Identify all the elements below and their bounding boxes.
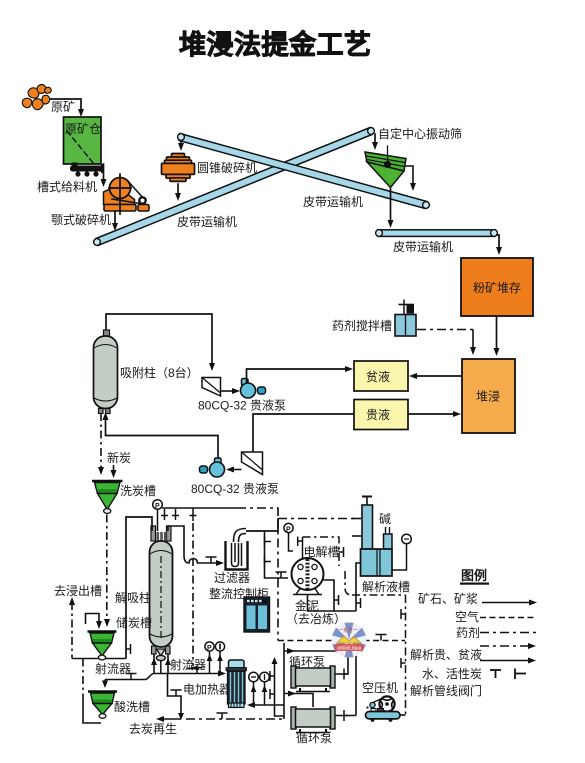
desorb tank column	[362, 497, 373, 550]
tick into tank column	[352, 535, 362, 537]
valve on x405 b	[401, 658, 406, 668]
electrolysis cell circle	[292, 558, 324, 595]
lower branch to regen	[168, 674, 182, 716]
svg-text:P: P	[155, 503, 160, 510]
dashdot line to tank column	[278, 518, 358, 520]
belt conveyor A (up-right)	[94, 128, 375, 246]
svg-text:自定中心振动筛: 自定中心振动筛	[378, 126, 462, 141]
dashed air line bottom y641	[278, 640, 405, 642]
svg-text:解析管线阀门: 解析管线阀门	[410, 683, 482, 698]
jet outlet pipes	[153, 654, 155, 674]
svg-text:图例: 图例	[461, 568, 487, 583]
pump2 80CQ-32	[200, 458, 225, 477]
dashdot vertical at x278	[277, 519, 279, 641]
electric heater 电加热器	[226, 660, 247, 708]
svg-text:射流器: 射流器	[95, 661, 131, 676]
svg-text:原矿仓: 原矿仓	[65, 122, 101, 136]
pressure gauge P on desorption column	[153, 500, 163, 531]
regen arrow left	[161, 718, 181, 720]
wire stock to heap	[496, 316, 498, 351]
valve pair on x264.5 a	[265, 537, 272, 547]
arrow cone crusher to beltA	[177, 184, 179, 196]
valve T on filter line	[206, 557, 217, 563]
svg-text:酸洗槽: 酸洗槽	[114, 699, 150, 714]
wire sump1 to pump1	[221, 390, 236, 392]
jet device under desorption column 射流器	[152, 646, 171, 661]
arrow beltA end to screen	[374, 134, 376, 145]
svg-text:堆浸法提金工艺: 堆浸法提金工艺	[179, 29, 372, 60]
svg-text:药剂: 药剂	[456, 625, 480, 640]
valve T before cell	[276, 572, 287, 578]
svg-text:电解槽: 电解槽	[304, 545, 340, 559]
svg-text:颚式破碎机: 颚式破碎机	[51, 212, 111, 227]
svg-text:贵液: 贵液	[366, 407, 390, 422]
svg-text:解析贵、贫液: 解析贵、贫液	[410, 647, 482, 662]
dashdot x85 down	[82, 659, 84, 701]
valve on electro box right	[339, 547, 344, 557]
fine ore stock 粉矿堆存	[461, 258, 533, 316]
svg-text:射流器: 射流器	[170, 657, 206, 672]
heap leach 堆浸	[462, 359, 515, 433]
wire column left post down to jet	[126, 517, 152, 659]
svg-text:空气: 空气	[455, 609, 479, 624]
valve on electro feed	[298, 537, 303, 547]
valve T on left branch	[126, 674, 137, 680]
screen underflow arrow	[390, 189, 392, 223]
vibrating screen 自定中心振动筛	[365, 146, 406, 188]
svg-text:水、活性炭: 水、活性炭	[422, 667, 482, 681]
valve on x126	[126, 644, 131, 654]
svg-text:圆锥破碎机: 圆锥破碎机	[197, 160, 257, 175]
acid wash tank 酸洗槽	[88, 692, 117, 719]
svg-text:洗炭槽: 洗炭槽	[120, 484, 156, 498]
svg-text:去浸出槽: 去浸出槽	[54, 584, 102, 598]
svg-text:皮带运输机: 皮带运输机	[303, 194, 363, 209]
filter 过滤器	[226, 541, 248, 570]
wire filter branch to cell	[265, 531, 289, 578]
wire cell right to tank line	[324, 580, 357, 611]
dashdot y720 to right	[186, 718, 284, 720]
arrow beltB end to cone crusher	[180, 141, 182, 146]
svg-text:解析液槽: 解析液槽	[362, 579, 410, 594]
arrow into acid tank	[104, 680, 106, 684]
wire beltC to stock box	[497, 235, 499, 250]
svg-text:新炭: 新炭	[107, 450, 131, 465]
heater bottom outlet line	[252, 704, 284, 706]
gauge T heater in	[215, 642, 224, 673]
right vertical x356	[355, 651, 357, 716]
svg-text:80CQ-32 贵液泵: 80CQ-32 贵液泵	[191, 481, 279, 496]
svg-text:皮带运输机: 皮带运输机	[393, 239, 453, 254]
tank gauge	[392, 534, 411, 570]
gauge P electro	[284, 523, 293, 551]
svg-text:原矿: 原矿	[51, 100, 75, 114]
wire pump1 to lean box	[247, 369, 349, 383]
cone crusher 圆锥破碎机	[162, 154, 195, 182]
acid tank feed line	[104, 679, 106, 681]
svg-text:去炭再生: 去炭再生	[129, 722, 177, 736]
wire ore to bin	[50, 99, 81, 112]
dashdot up-arrow to leach tank	[71, 602, 73, 659]
dashdot air line down right of column	[192, 523, 194, 666]
pump top line y651	[284, 650, 356, 652]
svg-text:空压机: 空压机	[362, 681, 398, 695]
carbon storage tank 储炭槽	[88, 632, 117, 660]
pump supply riser x284	[283, 643, 285, 719]
belt conveyor C (horizontal)	[376, 230, 498, 237]
pump2 outlet	[335, 715, 356, 717]
sump2	[242, 452, 263, 475]
adsorption column 吸附柱	[94, 330, 118, 414]
valve on x405 a	[401, 609, 406, 619]
valve on riser b	[270, 689, 275, 699]
svg-text:循环泵: 循环泵	[296, 731, 332, 745]
rich solution box 贵液	[354, 400, 408, 430]
valve on y641	[376, 635, 387, 641]
jaw crusher 颚式破碎机	[104, 174, 150, 214]
belt conveyor B (down-right)	[178, 134, 430, 209]
svg-text:（去冶炼）: （去冶炼）	[286, 611, 346, 626]
screen oversize outlet wire	[405, 166, 413, 186]
svg-text:anbaiLiqua: anbaiLiqua	[337, 646, 362, 652]
svg-text:80CQ-32 贵液泵: 80CQ-32 贵液泵	[198, 398, 286, 413]
valve on riser a	[270, 671, 275, 681]
valve pair on x264.5 b	[265, 557, 272, 567]
riser pipe x274.5	[275, 660, 285, 716]
svg-text:堆浸: 堆浸	[476, 390, 500, 404]
wire cell bottom	[308, 595, 335, 612]
svg-text:皮带运输机: 皮带运输机	[177, 214, 237, 229]
svg-text:粉矿堆存: 粉矿堆存	[473, 281, 521, 295]
wire heap to lean box	[414, 375, 462, 377]
wire column top to sump1	[106, 314, 212, 366]
circulation pump 2	[291, 707, 335, 733]
carbon dashdot washtank to storage	[106, 515, 108, 622]
valve on L1 b	[172, 509, 179, 520]
bottom header y658.5	[72, 658, 126, 660]
svg-text:P: P	[286, 527, 291, 534]
sump1	[202, 378, 221, 397]
svg-text:药剂搅拌槽: 药剂搅拌槽	[332, 318, 392, 333]
desorb liquid tank 解析液槽	[361, 549, 393, 576]
valve on x356	[356, 598, 361, 608]
wire bin to jaw crusher	[103, 164, 105, 181]
ore bin 原矿仓	[64, 117, 102, 164]
lean solution box 贫液	[354, 361, 408, 391]
logo watermark	[332, 623, 367, 658]
valve T on header	[192, 668, 203, 674]
reagent dash wire to heap	[417, 329, 473, 331]
reagent mixer 药剂搅拌槽	[395, 300, 416, 337]
svg-text:碱: 碱	[379, 512, 391, 526]
svg-text:一东方一: 一东方一	[338, 627, 358, 634]
pump mid line y693.5	[284, 694, 313, 708]
alkali feed nub	[384, 527, 393, 549]
top header pipe L1	[162, 507, 237, 509]
filter outlet curved pipe	[234, 529, 247, 543]
gauge P heater in	[205, 642, 214, 673]
wire rich box to sump2	[253, 414, 354, 452]
desorption column 解吸柱	[150, 526, 173, 647]
gauge heater out a	[249, 672, 259, 705]
arrow jaw crusher to belt	[114, 212, 116, 226]
raw ore rocks	[22, 85, 51, 110]
new carbon arrow	[113, 465, 115, 473]
header pipe to heater	[154, 673, 222, 675]
svg-text:解吸柱: 解吸柱	[115, 590, 151, 605]
dashdot loop under tank	[345, 571, 352, 595]
svg-text:槽式给料机: 槽式给料机	[37, 180, 97, 194]
loop pipe into storage tank	[86, 614, 100, 625]
svg-text:过滤器: 过滤器	[214, 571, 250, 585]
valve T on lower branch	[171, 690, 182, 696]
electro dashdot feed	[303, 537, 340, 566]
valve T on y720	[217, 713, 228, 719]
pump1 80CQ-32	[241, 379, 266, 399]
air compressor 空压机	[366, 696, 406, 721]
gauge heater out b	[260, 672, 270, 705]
circulation pump 1	[291, 666, 335, 692]
dashdot right border x405	[405, 595, 407, 716]
svg-text:贫液: 贫液	[366, 369, 390, 384]
wire rich box to heap	[408, 413, 456, 415]
svg-text:吸附柱（8台）: 吸附柱（8台）	[120, 365, 199, 380]
svg-text:储炭槽: 储炭槽	[116, 615, 152, 630]
carbon dashdot column to washtank	[100, 413, 102, 469]
svg-text:P: P	[207, 645, 212, 652]
svg-text:矿石、矿浆: 矿石、矿浆	[418, 591, 478, 606]
pump1 outlet	[335, 651, 348, 674]
valve on L1 c	[190, 508, 197, 521]
valve on x334	[334, 595, 339, 605]
trough feeder 槽式给料机	[70, 163, 104, 177]
wire sump2 to pump2	[231, 469, 242, 471]
rectifier cabinet 整流控制柜	[244, 597, 270, 632]
wire pump2 to column bottom	[106, 417, 219, 459]
tank feed pipe	[356, 563, 363, 611]
left branch with hop	[105, 679, 145, 681]
wire column right post to filter	[168, 526, 219, 563]
svg-text:电加热器: 电加热器	[183, 683, 231, 697]
carbon wash tank 洗炭槽	[92, 481, 123, 513]
valve on L1 a	[161, 509, 168, 520]
